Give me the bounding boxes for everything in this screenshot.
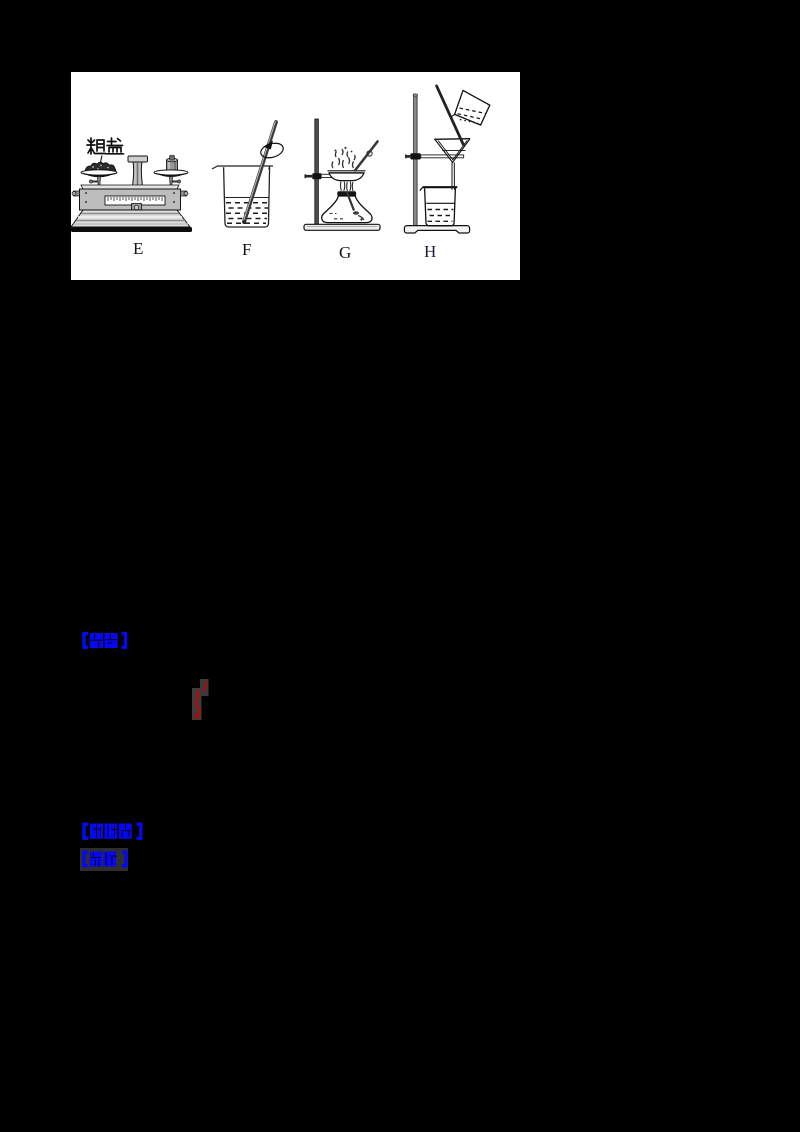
- balance E : rider pointer and adjuster: [132, 204, 142, 212]
- beaker F : glass rod: [244, 122, 276, 222]
- svg-text:G: G: [339, 243, 351, 262]
- grey highlight + blue tag 【点评】: [80, 848, 128, 871]
- stand H : base plate with feet: [404, 226, 469, 233]
- beaker F : outline with spout: [212, 166, 273, 169]
- beaker F : dashed liquid: [226, 203, 268, 224]
- red annotation mark: [188, 675, 214, 725]
- stand G : base plate: [304, 224, 380, 230]
- white figure panel: [71, 72, 520, 280]
- blue tag 【知识点】: [80, 821, 146, 842]
- stand G : ring arm: [321, 174, 334, 177]
- stand G : vertical pole: [315, 119, 319, 225]
- balance E : left pan: [81, 170, 117, 175]
- alcohol lamp G : wick and fuel: [347, 192, 354, 211]
- vapor spatters above dish G: [332, 149, 355, 168]
- balance E : salt heap on left pan: [85, 162, 116, 172]
- beaker F : liquid surface: [225, 197, 268, 199]
- receiving beaker H: [423, 186, 458, 188]
- balance E : platform body: [81, 185, 179, 189]
- funnel H : rim cone stem: [434, 138, 470, 141]
- stand H : clamp knot and thumbscrew: [410, 153, 421, 159]
- svg-text:F: F: [242, 240, 251, 259]
- balance E : base trapezoid with stripes: [71, 210, 190, 227]
- stand H : ring arm: [421, 155, 464, 158]
- balance E : platform rivets: [85, 192, 87, 194]
- balance E : graduated ruler: [105, 196, 165, 205]
- alcohol lamp G : collar: [337, 191, 356, 196]
- balance E : weight on right pan: [167, 160, 178, 174]
- evaporating dish G: [328, 170, 366, 172]
- blue tag 【解答】: [80, 631, 130, 650]
- beaker F : stirring arrow: [259, 141, 285, 160]
- balance E : right pan: [154, 170, 188, 175]
- balance E : side thumbscrews: [74, 191, 80, 196]
- balance E : left pan spindle and screw: [98, 177, 101, 187]
- leader line from 粗盐 to left pan: [100, 156, 103, 168]
- svg-text:H: H: [424, 242, 436, 261]
- balance E : black base strip: [71, 227, 192, 232]
- pouring beaker H (tilted): [455, 90, 490, 125]
- glass rod H: [437, 86, 464, 145]
- flame under dish: [340, 182, 353, 192]
- balance E : central pillar: [128, 156, 148, 162]
- alcohol lamp G : body: [322, 196, 372, 223]
- balance E : right pan spindle and screw: [170, 177, 173, 187]
- stand G : clamp knot and thumbscrew: [312, 173, 321, 179]
- svg-text:E: E: [133, 239, 143, 258]
- balance E : label 粗盐 (coarse salt) drawn strokes: [87, 138, 124, 154]
- stand H : vertical pole: [414, 95, 418, 226]
- glass rod in dish G: [355, 142, 378, 171]
